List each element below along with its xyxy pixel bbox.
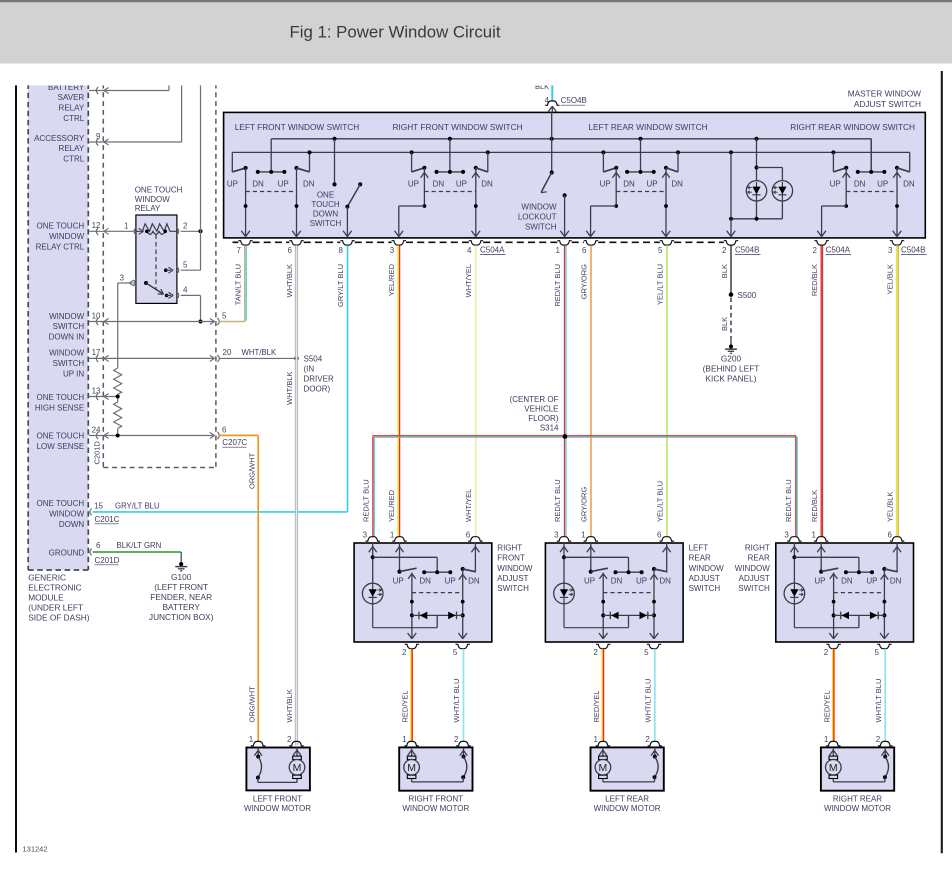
svg-text:DN: DN [611, 577, 623, 586]
svg-text:RIGHT FRONT: RIGHT FRONT [409, 795, 464, 804]
svg-text:1: 1 [124, 222, 129, 231]
svg-text:TAN/LT BLU: TAN/LT BLU [234, 264, 243, 305]
svg-text:G100: G100 [171, 572, 192, 582]
svg-text:DOOR): DOOR) [304, 384, 331, 393]
svg-text:M: M [599, 762, 608, 774]
svg-text:SWITCH: SWITCH [53, 359, 85, 368]
svg-text:5: 5 [183, 260, 188, 269]
svg-text:GENERIC: GENERIC [28, 572, 66, 582]
svg-text:UP: UP [227, 179, 238, 188]
wire RED/BLK (C504A pin 2 to right rear adjust pin 1) [810, 245, 823, 536]
svg-text:ADJUST SWITCH: ADJUST SWITCH [854, 99, 921, 109]
svg-text:LEFT REAR WINDOW SWITCH: LEFT REAR WINDOW SWITCH [588, 122, 707, 132]
svg-text:WINDOW: WINDOW [49, 232, 85, 241]
svg-text:RED/LT BLU: RED/LT BLU [361, 479, 370, 522]
svg-text:HIGH SENSE: HIGH SENSE [35, 403, 84, 412]
svg-text:1: 1 [402, 735, 407, 744]
svg-text:SAVER: SAVER [58, 93, 85, 102]
svg-text:ONE TOUCH: ONE TOUCH [36, 499, 84, 508]
svg-text:RELAY CTRL: RELAY CTRL [36, 242, 85, 251]
svg-text:GRY/LT BLU: GRY/LT BLU [336, 264, 345, 307]
svg-text:RIGHT: RIGHT [745, 544, 770, 553]
svg-text:(LEFT FRONT: (LEFT FRONT [154, 582, 208, 592]
svg-text:GRY/ORG: GRY/ORG [580, 264, 589, 299]
svg-text:C201D: C201D [93, 441, 102, 465]
svg-text:(CENTER OF: (CENTER OF [510, 395, 559, 404]
svg-text:RED/YEL: RED/YEL [592, 690, 601, 722]
splice S504 [294, 355, 334, 394]
svg-text:3: 3 [363, 530, 368, 539]
svg-text:RED/LT BLU: RED/LT BLU [553, 264, 562, 307]
wire GRY/LT BLU (pin 8 to GEM pin 15) [336, 245, 348, 512]
svg-text:DN: DN [671, 179, 683, 188]
svg-text:WHT/BLK: WHT/BLK [285, 372, 294, 405]
upper supply bus [271, 138, 871, 140]
connector C504 pin brackets and numbers [236, 241, 926, 255]
svg-text:S500: S500 [738, 291, 757, 300]
svg-text:C207C: C207C [222, 438, 247, 447]
svg-text:6: 6 [222, 425, 227, 434]
svg-text:WINDOW MOTOR: WINDOW MOTOR [402, 804, 469, 813]
svg-text:WINDOW MOTOR: WINDOW MOTOR [594, 804, 661, 813]
svg-text:4: 4 [545, 96, 550, 105]
GEM module (generic electronic module) [28, 84, 88, 571]
svg-text:SWITCH: SWITCH [525, 222, 557, 231]
resistor R1 (one touch high sense) [114, 368, 122, 394]
svg-text:2: 2 [722, 246, 727, 255]
top crop band [0, 64, 952, 86]
svg-text:4: 4 [467, 246, 472, 255]
svg-text:YEL/LT BLU: YEL/LT BLU [656, 264, 665, 305]
svg-text:RIGHT: RIGHT [497, 544, 522, 553]
right front window switch [395, 137, 493, 237]
svg-text:6: 6 [657, 530, 662, 539]
wire one touch window relay ctrl (pin 12) to relay pin 1 [89, 221, 134, 235]
GEM pin labels [34, 83, 85, 558]
svg-text:SIDE OF DASH): SIDE OF DASH) [28, 612, 90, 622]
svg-text:SWITCH: SWITCH [310, 219, 342, 228]
right front window adjust switch [354, 530, 533, 657]
svg-text:WINDOW: WINDOW [497, 564, 533, 573]
svg-text:CTRL: CTRL [63, 155, 84, 164]
svg-text:GROUND: GROUND [49, 548, 85, 557]
svg-text:S504: S504 [304, 355, 323, 364]
svg-text:WHT/BLK: WHT/BLK [285, 264, 294, 297]
left rear window motor [591, 735, 664, 813]
svg-text:3: 3 [784, 530, 789, 539]
svg-text:REAR: REAR [689, 554, 711, 563]
svg-text:3: 3 [888, 246, 893, 255]
svg-text:RELAY: RELAY [135, 204, 161, 213]
relay actuator dashed link [155, 235, 157, 291]
left rear window switch [586, 137, 683, 237]
svg-text:YEL/BLK: YEL/BLK [886, 492, 895, 522]
svg-text:2: 2 [454, 735, 459, 744]
ground G200 [703, 338, 760, 383]
wire GRY/ORG (pin 6 to left rear adjust pin 1) [580, 245, 592, 536]
connector C504 dashed line [233, 241, 724, 243]
svg-text:ADJUST: ADJUST [689, 574, 720, 583]
svg-text:DOWN: DOWN [59, 520, 85, 529]
svg-text:2: 2 [287, 735, 292, 744]
svg-text:WHT/YEL: WHT/YEL [464, 489, 473, 522]
svg-text:DN: DN [481, 179, 493, 188]
svg-text:YEL/RED: YEL/RED [387, 263, 396, 296]
svg-text:RELAY: RELAY [59, 104, 85, 113]
svg-text:RED/BLK: RED/BLK [810, 264, 819, 296]
svg-text:12: 12 [92, 221, 101, 230]
svg-text:5: 5 [875, 648, 880, 657]
svg-text:REAR: REAR [748, 554, 770, 563]
svg-text:MODULE: MODULE [28, 592, 64, 602]
svg-text:20: 20 [223, 348, 232, 357]
left front window motor [244, 735, 311, 813]
svg-text:UP: UP [393, 577, 404, 586]
wire accessory relay ctrl (pin 9) [89, 84, 182, 146]
svg-text:UP: UP [408, 179, 419, 188]
svg-text:LOW SENSE: LOW SENSE [37, 442, 85, 451]
svg-text:RED/BLK: RED/BLK [810, 490, 819, 522]
dashed connector bottom link [103, 467, 216, 469]
svg-text:DN: DN [419, 577, 431, 586]
svg-text:FRONT: FRONT [497, 554, 525, 563]
svg-text:ACCESSORY: ACCESSORY [34, 134, 85, 143]
svg-text:ORG/WHT: ORG/WHT [248, 452, 257, 489]
wire relay pin3 to resistor chain [118, 282, 133, 284]
frame right border [941, 71, 943, 853]
right rear window switch [817, 139, 915, 237]
svg-text:4: 4 [183, 285, 188, 294]
svg-text:FLOOR): FLOOR) [528, 414, 559, 423]
svg-text:RED/YEL: RED/YEL [401, 690, 410, 722]
wire WHT/YEL (pin 4 to right front adjust switch pin 6) [464, 245, 476, 536]
svg-text:DOWN: DOWN [313, 210, 339, 219]
svg-text:UP: UP [600, 179, 611, 188]
svg-text:ELECTRONIC: ELECTRONIC [28, 582, 81, 592]
svg-text:DN: DN [252, 179, 264, 188]
wire YEL/RED (pin 3 to right front adjust switch pin 1) [387, 245, 400, 536]
lockout indicator diodes [727, 137, 793, 237]
svg-text:ONE: ONE [317, 191, 334, 200]
svg-text:WINDOW: WINDOW [521, 203, 557, 212]
svg-text:LEFT REAR: LEFT REAR [605, 795, 649, 804]
master switch section titles [235, 122, 915, 132]
svg-text:C5O4B: C5O4B [561, 96, 587, 105]
svg-text:LEFT FRONT WINDOW SWITCH: LEFT FRONT WINDOW SWITCH [235, 122, 360, 132]
svg-text:WHT/YEL: WHT/YEL [464, 264, 473, 297]
wire ground (pin 6) BLK/LT GRN [90, 541, 181, 565]
svg-text:6: 6 [582, 246, 587, 255]
svg-text:6: 6 [466, 530, 471, 539]
resistor chain vertical wire [117, 283, 119, 436]
svg-text:(BEHIND LEFT: (BEHIND LEFT [703, 363, 760, 373]
svg-text:UP: UP [814, 577, 825, 586]
svg-text:LOCKOUT: LOCKOUT [518, 213, 557, 222]
svg-text:UP: UP [456, 179, 467, 188]
wire battery saver relay ctrl (pin row 1) [89, 84, 169, 95]
svg-text:LEFT FRONT: LEFT FRONT [253, 795, 302, 804]
svg-text:DN: DN [841, 577, 853, 586]
svg-text:UP: UP [866, 577, 877, 586]
svg-text:C504A: C504A [480, 245, 505, 254]
svg-text:Fig 1: Power Window Circuit: Fig 1: Power Window Circuit [290, 24, 501, 42]
svg-text:UP: UP [636, 577, 647, 586]
svg-text:ONE TOUCH: ONE TOUCH [36, 432, 84, 441]
svg-text:DN: DN [623, 179, 635, 188]
svg-text:1: 1 [812, 530, 817, 539]
svg-text:DN: DN [303, 179, 315, 188]
splice S314 distribution wire RED/LT BLU [361, 395, 797, 537]
svg-text:M: M [829, 762, 838, 774]
wire RED/LT BLU trunk (pin 1 through S314 to left rear adjust pin 3) [553, 245, 566, 536]
one touch down switch [310, 137, 363, 237]
svg-text:GRY/ORG: GRY/ORG [580, 487, 589, 522]
svg-text:ONE TOUCH: ONE TOUCH [36, 393, 84, 402]
svg-text:6: 6 [287, 246, 292, 255]
svg-text:WHT/LT BLU: WHT/LT BLU [452, 679, 461, 723]
svg-text:3: 3 [390, 246, 395, 255]
svg-text:3: 3 [120, 273, 125, 282]
svg-text:RELAY: RELAY [59, 144, 85, 153]
svg-text:WINDOW: WINDOW [689, 564, 725, 573]
wire window switch down in (pin 10) row [89, 311, 227, 325]
svg-text:DRIVER: DRIVER [304, 374, 334, 383]
svg-text:RIGHT REAR WINDOW SWITCH: RIGHT REAR WINDOW SWITCH [790, 122, 915, 132]
svg-text:RIGHT REAR: RIGHT REAR [833, 795, 882, 804]
window lockout switch [518, 112, 569, 236]
svg-text:M: M [293, 762, 302, 774]
right rear window motor [821, 735, 894, 813]
svg-text:ORG/WHT: ORG/WHT [248, 686, 257, 723]
lower supply bus [232, 151, 909, 153]
svg-text:GRY/LT BLU: GRY/LT BLU [115, 501, 160, 510]
svg-text:5: 5 [453, 648, 458, 657]
wire relay pin2/pin5 junction vertical [181, 84, 201, 271]
svg-text:5: 5 [644, 648, 649, 657]
master window adjust switch box [224, 112, 926, 237]
svg-text:SWITCH: SWITCH [689, 584, 721, 593]
svg-text:2: 2 [593, 648, 598, 657]
svg-text:BLK: BLK [720, 317, 729, 331]
svg-text:LEFT: LEFT [689, 544, 709, 553]
svg-text:SWITCH: SWITCH [497, 584, 529, 593]
svg-text:DN: DN [433, 179, 445, 188]
svg-text:15: 15 [94, 501, 103, 510]
svg-text:1: 1 [249, 735, 254, 744]
svg-text:RED/YEL: RED/YEL [822, 690, 831, 722]
svg-text:10: 10 [92, 311, 101, 320]
svg-text:1: 1 [824, 735, 829, 744]
svg-text:6: 6 [887, 530, 892, 539]
svg-text:MASTER WINDOW: MASTER WINDOW [848, 89, 921, 99]
svg-text:BATTERY: BATTERY [162, 602, 200, 612]
GEM module caption [28, 572, 90, 622]
svg-text:ONE TOUCH: ONE TOUCH [135, 186, 183, 195]
right front window motor [399, 735, 472, 813]
svg-text:1: 1 [581, 530, 586, 539]
svg-text:RED/LT BLU: RED/LT BLU [784, 479, 793, 522]
svg-text:UP: UP [584, 577, 595, 586]
frame left border [15, 85, 17, 853]
svg-text:7: 7 [236, 246, 241, 255]
svg-text:DN: DN [468, 577, 480, 586]
left rear window adjust switch [545, 530, 724, 657]
master switch caption [848, 89, 921, 109]
svg-text:YEL/LT BLU: YEL/LT BLU [656, 481, 665, 522]
svg-text:UP IN: UP IN [63, 369, 84, 378]
svg-text:WHT/BLK: WHT/BLK [242, 348, 277, 357]
svg-text:BLK: BLK [720, 264, 729, 278]
svg-text:S314: S314 [540, 424, 559, 433]
svg-text:DN: DN [890, 577, 902, 586]
svg-text:2: 2 [824, 648, 829, 657]
wires RED/YEL and WHT/LT BLU (adjust switches to motors) [401, 649, 886, 741]
svg-text:CTRL: CTRL [63, 114, 84, 123]
header bar [0, 0, 952, 64]
svg-text:UP: UP [445, 577, 456, 586]
svg-text:YEL/BLK: YEL/BLK [886, 264, 895, 294]
svg-text:1: 1 [555, 246, 560, 255]
wire YEL/LT BLU (pin 5 to left rear adjust pin 6) [656, 245, 668, 536]
svg-text:M: M [407, 762, 416, 774]
svg-text:5: 5 [222, 311, 227, 320]
svg-text:8: 8 [338, 246, 343, 255]
svg-text:WINDOW: WINDOW [735, 564, 771, 573]
wire ORG/WHT (C207C pin 6 to left front motor pin 1) [219, 435, 258, 741]
wire one touch low sense (pin 24) row to C207C [89, 425, 248, 447]
wire one touch window down (pin 15) GRY/LT BLU [90, 501, 348, 524]
svg-text:SWITCH: SWITCH [53, 322, 85, 331]
svg-text:FENDER, NEAR: FENDER, NEAR [150, 592, 212, 602]
svg-text:WINDOW: WINDOW [49, 312, 85, 321]
svg-text:(IN: (IN [304, 364, 315, 373]
relay box [136, 215, 177, 303]
svg-text:C504A: C504A [826, 245, 851, 254]
svg-text:WINDOW: WINDOW [49, 510, 85, 519]
svg-text:BLK/LT GRN: BLK/LT GRN [117, 541, 162, 550]
svg-text:2: 2 [402, 648, 407, 657]
svg-text:UP: UP [278, 179, 289, 188]
relay switch contact (pins 3-4-5) [120, 260, 188, 299]
wire BLK to connector C504B pin 4 (top) [535, 82, 587, 112]
svg-text:DN: DN [854, 179, 866, 188]
relay: ONE TOUCH WINDOW RELAY label [135, 186, 183, 214]
svg-text:WINDOW: WINDOW [135, 195, 171, 204]
wire relay pin4 down to window-switch-down row [181, 295, 203, 323]
svg-text:(UNDER LEFT: (UNDER LEFT [28, 602, 83, 612]
svg-text:C201D: C201D [95, 556, 120, 565]
svg-text:13: 13 [92, 386, 101, 395]
svg-text:9: 9 [96, 132, 101, 141]
svg-text:2: 2 [645, 735, 650, 744]
svg-text:1: 1 [390, 530, 395, 539]
svg-text:17: 17 [92, 348, 101, 357]
svg-text:RED/LT BLU: RED/LT BLU [553, 479, 562, 522]
relay coil (pins 1-2) [124, 222, 202, 235]
svg-text:131242: 131242 [23, 845, 48, 854]
wire YEL/BLK (C504B pin 3 to right rear adjust pin 6) [886, 245, 899, 536]
svg-text:3: 3 [554, 530, 559, 539]
wire WHT/BLK (pin 6 to left front motor pin 2) [285, 245, 298, 745]
resistor R2 (one touch low sense) [114, 402, 122, 428]
svg-text:C201C: C201C [95, 515, 120, 524]
right rear window adjust switch [735, 530, 914, 657]
svg-text:DOWN IN: DOWN IN [49, 333, 85, 342]
svg-text:SWITCH: SWITCH [738, 584, 770, 593]
svg-text:UP: UP [646, 179, 657, 188]
svg-text:WINDOW MOTOR: WINDOW MOTOR [244, 804, 311, 813]
wire BLK (pin 2 to splice S500 and ground G200) [720, 245, 757, 338]
svg-text:WHT/BLK: WHT/BLK [285, 689, 294, 722]
connector C207 dashed line [215, 84, 217, 468]
svg-text:6: 6 [96, 541, 101, 550]
svg-text:KICK PANEL): KICK PANEL) [705, 373, 756, 383]
svg-text:ONE TOUCH: ONE TOUCH [36, 222, 84, 231]
left front window switch [227, 139, 315, 237]
svg-text:C504B: C504B [901, 245, 925, 254]
svg-text:5: 5 [658, 246, 663, 255]
svg-text:WINDOW MOTOR: WINDOW MOTOR [824, 804, 891, 813]
svg-text:WINDOW: WINDOW [49, 349, 85, 358]
svg-text:RIGHT FRONT WINDOW SWITCH: RIGHT FRONT WINDOW SWITCH [392, 122, 522, 132]
svg-text:DN: DN [659, 577, 671, 586]
svg-text:ADJUST: ADJUST [739, 574, 770, 583]
svg-text:2: 2 [876, 735, 881, 744]
wire one touch high sense (pin 13) row [89, 386, 120, 400]
ground G100 [149, 552, 214, 622]
svg-text:1: 1 [593, 735, 598, 744]
svg-text:UP: UP [830, 179, 841, 188]
svg-text:YEL/RED: YEL/RED [387, 489, 396, 522]
wire window switch up in (pin 17) row to splice S504 [89, 348, 297, 362]
svg-text:VEHICLE: VEHICLE [524, 405, 558, 414]
svg-text:2: 2 [183, 222, 188, 231]
svg-text:ADJUST: ADJUST [497, 574, 528, 583]
wire TAN/LT BLU (pin 7 to GEM pin 10) [219, 245, 246, 321]
svg-text:WHT/LT BLU: WHT/LT BLU [644, 679, 653, 723]
svg-text:C504B: C504B [735, 245, 759, 254]
svg-text:DN: DN [903, 179, 915, 188]
svg-text:JUNCTION BOX): JUNCTION BOX) [149, 612, 214, 622]
svg-text:UP: UP [877, 179, 888, 188]
svg-text:24: 24 [92, 425, 101, 434]
connector C201 dashed line [102, 84, 104, 468]
svg-text:2: 2 [813, 246, 818, 255]
svg-text:G200: G200 [721, 353, 742, 363]
svg-text:WHT/LT BLU: WHT/LT BLU [874, 679, 883, 723]
svg-text:TOUCH: TOUCH [311, 200, 340, 209]
